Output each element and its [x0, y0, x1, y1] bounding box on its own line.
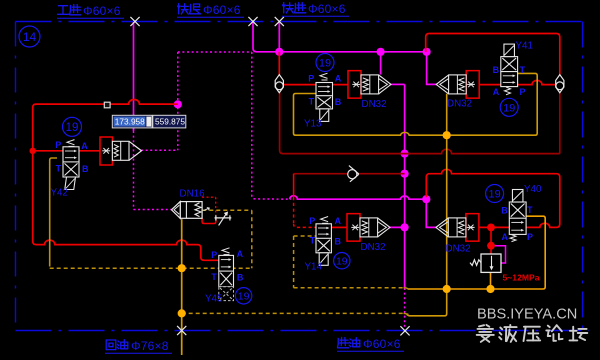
wire: row y=84.6 left part through Y13 [279, 84, 348, 86]
wire: rail from check valve down / y=153.6 [280, 93, 560, 154]
svg-text:B: B [493, 65, 500, 75]
pipe label 进油 [338, 338, 349, 348]
wire: row y=227.4 segments [331, 226, 346, 228]
cartridge valve DN32 far-left [100, 137, 112, 165]
valve Y40 [509, 202, 526, 234]
drain dashed segments [50, 267, 252, 269]
wire: dashed pilot feed to Y14 [293, 174, 295, 197]
svg-text:A: A [493, 87, 500, 97]
svg-text:P: P [55, 140, 61, 150]
svg-text:Φ60×6: Φ60×6 [308, 2, 346, 16]
wire: relief feed [490, 227, 492, 254]
svg-text:Φ60×6: Φ60×6 [83, 4, 121, 18]
svg-text:Y13: Y13 [304, 119, 322, 130]
drain: relief to bus [490, 272, 492, 289]
check valve middle (horizontal) [348, 170, 357, 179]
orifice detail red dotted box at DN16 [202, 196, 216, 198]
svg-text:T: T [520, 65, 526, 75]
valve Y42 [67, 140, 75, 147]
svg-text:5~12MPa: 5~12MPa [503, 273, 540, 283]
pipe label 工进 [58, 6, 69, 15]
cartridge valve DN16 (points left) [180, 202, 202, 219]
drain: bottom-right bus y=289 [408, 216, 546, 289]
valve Y14 [321, 217, 329, 224]
svg-text:19: 19 [336, 255, 348, 267]
valve Y45 [222, 248, 230, 255]
crossing markers [130, 17, 139, 26]
drain: Y13/Y41 loop [294, 73, 538, 135]
svg-text:A: A [237, 249, 244, 259]
wire: magenta riser x=404.6 [404, 84, 406, 288]
valve Y13 [320, 73, 328, 80]
wire: pilot line to bottom-right valves [290, 196, 427, 199]
cartridge valve DN32 bottom-right [466, 214, 479, 242]
cartridge valve DN32 top-right [466, 71, 479, 99]
svg-text:P: P [527, 232, 533, 242]
watermark 爱液压论坛 [477, 325, 494, 342]
coordinate tooltip [112, 115, 152, 128]
svg-text:Φ76×8: Φ76×8 [131, 339, 169, 353]
cartridge valve DN32 top-left [348, 71, 361, 99]
wire: feed line 快进 vertical [278, 22, 280, 52]
svg-text:P: P [309, 216, 315, 226]
junction dots orange [443, 131, 451, 139]
pipe label 快退 [178, 4, 189, 15]
svg-text:T: T [309, 97, 315, 107]
svg-text:BBS.IYEYA.CN: BBS.IYEYA.CN [477, 307, 577, 323]
wire: x=560 below check valve [559, 93, 561, 154]
svg-text:P: P [308, 73, 314, 83]
drain: riser x=446.7 [408, 94, 447, 316]
svg-text:A: A [81, 141, 88, 151]
svg-text:Φ60×6: Φ60×6 [203, 3, 241, 17]
drain: main tank riser x=181.7 [181, 219, 183, 355]
svg-text:Y45: Y45 [205, 294, 223, 305]
grip marker [104, 102, 110, 108]
svg-text:Y42: Y42 [51, 188, 68, 199]
svg-text:B: B [335, 236, 342, 246]
svg-text:DN32: DN32 [447, 99, 472, 110]
svg-text:B: B [82, 164, 89, 174]
wire: rail y=173.7 [294, 173, 405, 175]
relief valve 5~12MPa [481, 254, 501, 272]
pipe label 回油 [106, 340, 116, 350]
svg-text:DN16: DN16 [180, 189, 206, 200]
valve Y41 [501, 57, 518, 87]
svg-text:173.958: 173.958 [115, 117, 145, 127]
cartridge valve DN32 bottom-left [347, 214, 360, 242]
svg-text:T: T [527, 205, 533, 215]
wire: branch down to DN32 top-right tip [427, 52, 438, 85]
svg-text:B: B [237, 272, 244, 282]
return line frame (blue dashed rectangle) [16, 21, 583, 23]
svg-text:19: 19 [319, 57, 331, 69]
wire: branch down to DN32 top-left [380, 52, 382, 75]
junction dots magenta [275, 48, 283, 56]
svg-text:P: P [211, 250, 217, 260]
svg-text:DN32: DN32 [362, 99, 387, 110]
wire: riser above check valve [278, 52, 280, 75]
pilot line (dotted) right branch down [252, 52, 291, 199]
svg-text:Y14: Y14 [305, 262, 323, 273]
svg-text:DN32: DN32 [361, 242, 386, 253]
svg-text:DN32: DN32 [446, 243, 471, 254]
variable throttle [215, 212, 232, 225]
junction dot [30, 148, 36, 154]
wire: top-right supply box [426, 34, 560, 75]
pipe label 快进 [283, 3, 294, 14]
svg-text:T: T [211, 272, 217, 282]
drain: Y42 tank line [50, 158, 57, 267]
wire: left supply box [33, 100, 219, 261]
wire: DN32 bottom-left tip stub [389, 226, 405, 228]
circled numbers [19, 26, 40, 47]
svg-text:19: 19 [503, 102, 515, 114]
pilot line (dotted) to DN16 [133, 131, 135, 210]
svg-text:Y41: Y41 [516, 41, 533, 52]
wire: feed line 快退 vertical + corner to horizontal bus [253, 22, 427, 52]
wire: row y=84.6 right part to Y41 and check valve [479, 80, 556, 84]
svg-text:Y40: Y40 [524, 184, 542, 195]
svg-text:14: 14 [23, 30, 37, 44]
wire: DN32 top-left tip to main magenta riser [390, 83, 405, 85]
wire: branch to Y42 [33, 150, 100, 152]
svg-text:B: B [501, 206, 508, 216]
svg-text:T: T [56, 163, 62, 173]
svg-text:A: A [335, 73, 342, 83]
wire: bottom-right red box [426, 169, 560, 227]
junction dots red [487, 224, 495, 232]
svg-text:19: 19 [66, 122, 79, 134]
wire: relief valve pilot [492, 246, 506, 263]
svg-text:P: P [520, 87, 526, 97]
svg-text:A: A [335, 216, 342, 226]
svg-text:Φ60×6: Φ60×6 [363, 337, 401, 351]
wire: feed line 工进 vertical [133, 22, 135, 131]
check valve right (vertical) [556, 75, 564, 93]
svg-text:559.875: 559.875 [155, 117, 185, 127]
svg-text:T: T [310, 236, 316, 246]
svg-text:19: 19 [488, 188, 500, 200]
pilot line (dotted) top box [178, 51, 252, 53]
svg-text:B: B [335, 97, 342, 107]
check valve left (vertical) [275, 75, 283, 93]
svg-text:19: 19 [238, 291, 250, 303]
svg-text:A: A [502, 232, 509, 242]
